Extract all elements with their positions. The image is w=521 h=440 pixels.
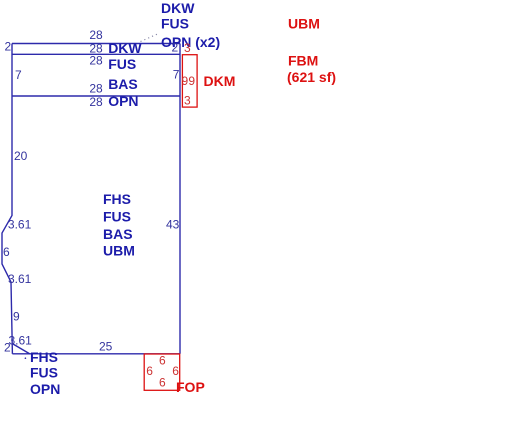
wire: top wall 28ft: [12, 43, 180, 45]
svg-text:FUS: FUS: [30, 364, 58, 380]
svg-text:FBM: FBM: [288, 53, 318, 69]
svg-text:FUS: FUS: [108, 56, 136, 72]
svg-text:FUS: FUS: [161, 16, 189, 32]
svg-text:2: 2: [5, 40, 12, 54]
svg-text:DKW: DKW: [161, 0, 195, 16]
svg-text:OPN: OPN: [30, 381, 60, 397]
svg-text:3.61: 3.61: [8, 272, 32, 286]
svg-text:2: 2: [172, 41, 179, 55]
wire: leader to FHS text: [13, 344, 30, 354]
svg-text:7: 7: [15, 68, 22, 82]
wire: left wall with jogs: [2, 44, 12, 354]
svg-text:6: 6: [172, 364, 179, 378]
svg-text:20: 20: [14, 149, 28, 163]
svg-text:DKM: DKM: [204, 73, 236, 89]
DKM red area rectangle: [182, 55, 197, 107]
svg-text:6: 6: [146, 364, 153, 378]
wire: bottom wall 25ft: [12, 353, 179, 355]
svg-text:6: 6: [159, 354, 166, 368]
svg-text:3.61: 3.61: [9, 334, 33, 348]
wire: dotted leader to DKW text block: [141, 34, 159, 42]
svg-text:BAS: BAS: [103, 226, 133, 242]
svg-text:3: 3: [184, 41, 191, 55]
svg-text:43: 43: [166, 218, 180, 232]
FOP red area rectangle: [144, 354, 180, 390]
svg-text:6: 6: [159, 376, 166, 390]
svg-text:28: 28: [89, 82, 103, 96]
svg-text:DKW: DKW: [108, 40, 142, 56]
svg-text:2: 2: [4, 341, 11, 355]
wire: second wall line: [12, 53, 180, 55]
svg-text:UBM: UBM: [288, 16, 320, 32]
svg-text:FOP: FOP: [176, 379, 205, 395]
svg-text:28: 28: [89, 95, 103, 109]
svg-text:28: 28: [89, 54, 103, 68]
svg-text:3: 3: [184, 94, 191, 108]
wire: third wall line: [12, 95, 180, 97]
svg-text:9: 9: [188, 74, 195, 88]
svg-text:BAS: BAS: [108, 76, 138, 92]
svg-text:6: 6: [3, 245, 10, 259]
svg-text:FHS: FHS: [30, 349, 58, 365]
svg-text:FHS: FHS: [103, 191, 131, 207]
svg-text:7: 7: [173, 68, 180, 82]
svg-text:25: 25: [99, 340, 113, 354]
svg-text:OPN: OPN: [108, 93, 138, 109]
svg-text:FUS: FUS: [103, 209, 131, 225]
svg-text:9: 9: [13, 310, 20, 324]
svg-text:UBM: UBM: [103, 243, 135, 259]
svg-text:(621 sf): (621 sf): [287, 69, 336, 85]
svg-text:28: 28: [89, 28, 103, 42]
node: leader dot: [25, 357, 27, 359]
svg-text:3.61: 3.61: [8, 217, 32, 231]
wire: right wall 43ft: [179, 44, 181, 354]
